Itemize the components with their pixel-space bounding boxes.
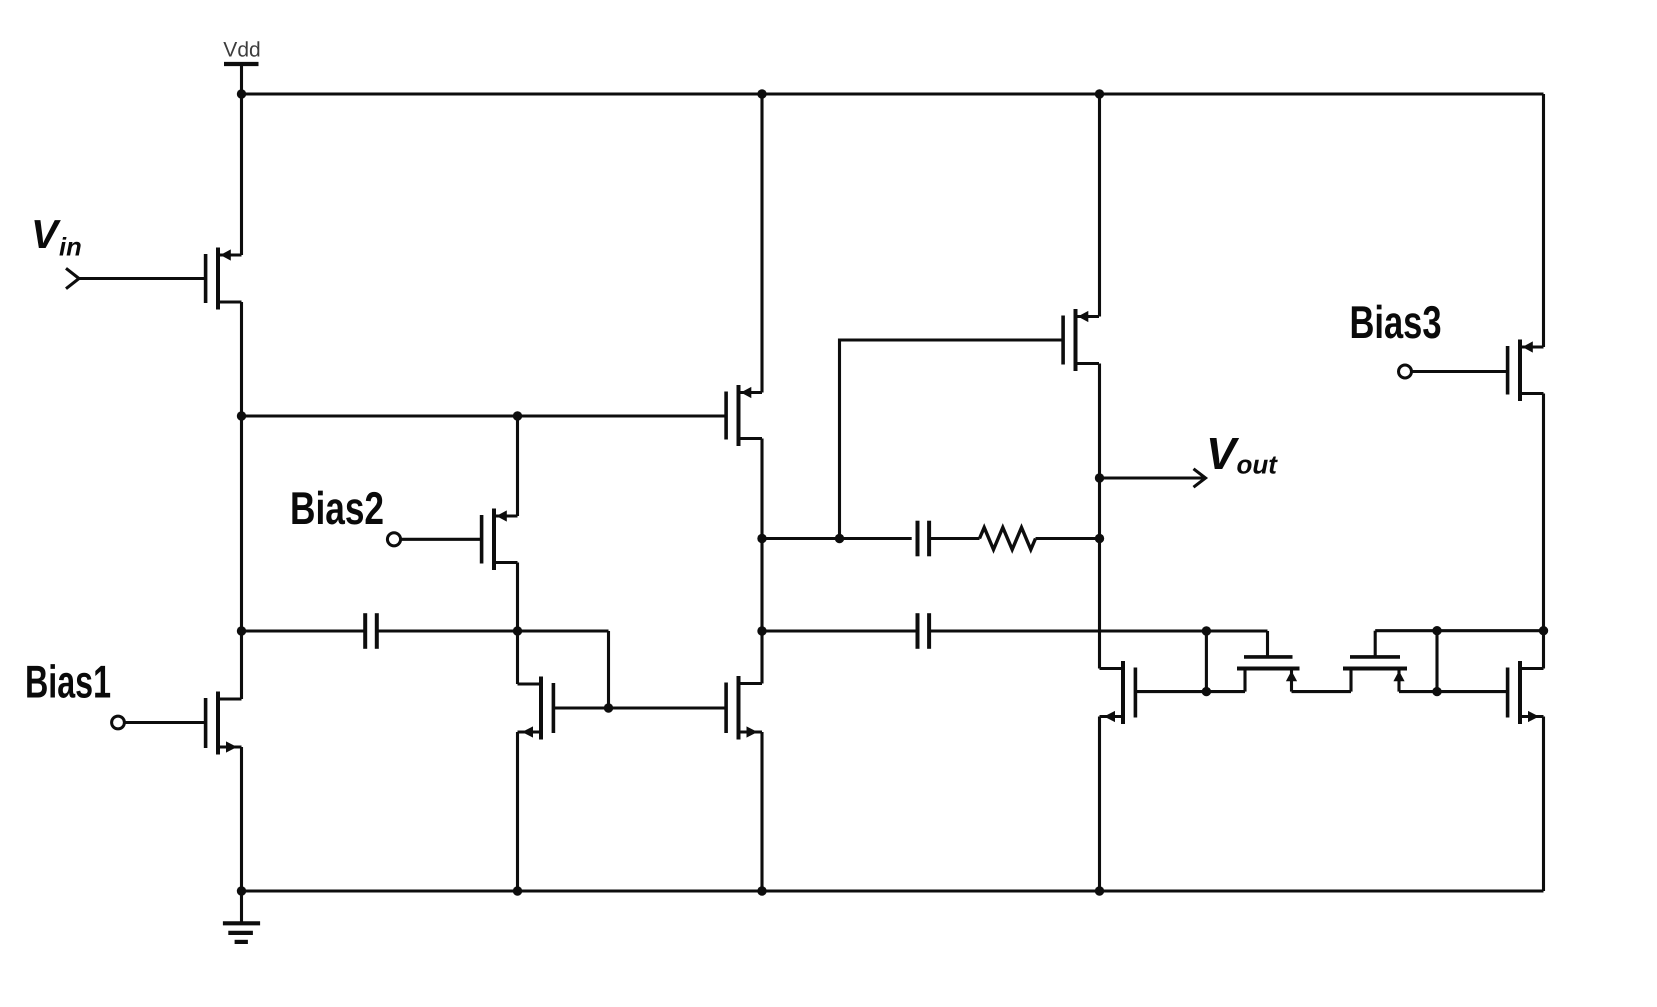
capacitor C1 (365, 613, 377, 649)
junction T2 source row (1432, 687, 1441, 696)
wire Vin to M1 gate (79, 277, 206, 280)
wire top Vdd rail (242, 92, 1544, 95)
transistor M7 (PMOS output stage) (1063, 309, 1099, 371)
port Bias2 terminal (387, 533, 400, 546)
node Vout label (1206, 428, 1278, 480)
wire M3 source up to node-A wire (516, 416, 519, 516)
svg-text:Vdd: Vdd (223, 38, 260, 61)
transistor M6 (NMOS mirror output) (726, 676, 762, 740)
wire node C to C2 (762, 629, 918, 632)
wire C2 to T1 gate corner (crosses output rail) (929, 629, 1267, 632)
wire T1 source to T2 drain (1292, 690, 1352, 693)
wire riser T2 source row (1435, 631, 1438, 692)
transistor M10 (NMOS right mirror) (1508, 661, 1544, 724)
wire node C to feedback tap (762, 537, 912, 540)
svg-text:in: in (59, 234, 82, 262)
port Vin (input chevron) (66, 268, 79, 288)
svg-text:out: out (1236, 450, 1278, 480)
svg-text:V: V (31, 211, 61, 257)
wire rail M5 source to Vdd (760, 94, 763, 393)
wire Bias3 to M9 gate (1412, 370, 1508, 373)
port Bias3 terminal (1399, 365, 1412, 378)
wire gate row M4 to M6 (552, 706, 726, 709)
junction M3 source tap (513, 411, 522, 420)
junction top rail / M7 branch (1095, 89, 1104, 98)
wire M6 source to ground rail (760, 732, 763, 891)
svg-text:V: V (1206, 428, 1240, 479)
transistor M4 (NMOS diode-connected mirror) (518, 677, 554, 740)
wire drop to M4/M6 gate row (607, 631, 610, 708)
wire resistor R1 to Vout rail (1036, 537, 1100, 540)
wire rail M9 source to Vdd (1542, 94, 1545, 347)
resistor R1 (zigzag) (980, 528, 1036, 550)
transistor M2 (NMOS, Bias1 current source) (206, 692, 242, 755)
transistor M9 (PMOS, Bias3 device) (1508, 340, 1544, 402)
junction M8 gate row (1202, 687, 1211, 696)
node Vin label (31, 211, 82, 262)
wire Vout stub (1100, 476, 1206, 479)
junction ground rail / M4 (513, 886, 522, 895)
wire rail M7 source to Vdd (1098, 94, 1101, 317)
junction ground rail / M2 (237, 886, 246, 895)
transistor Q2 (lateral NMOS, gate up) (1343, 657, 1407, 692)
power symbol Vdd (supply bar) (224, 62, 259, 66)
capacitor C2 (918, 613, 930, 649)
wire node A to M5 gate (242, 414, 727, 417)
wire T2 gate corner to right rail (1375, 629, 1543, 632)
wire bottom ground rail (242, 889, 1544, 892)
wire rail M1 source to Vdd (240, 94, 243, 255)
junction M4/M6 gate wire (604, 703, 613, 712)
svg-text:Bias2: Bias2 (290, 482, 384, 534)
wire node A to C1 (242, 629, 366, 632)
wire M10 source to ground rail (1542, 717, 1545, 892)
junction node C / C2 tap (757, 626, 766, 635)
transistor M8 (NMOS, output mirror) (1100, 661, 1136, 724)
junction node A / C1 tap (237, 626, 246, 635)
wire T2 gate stub (1374, 631, 1377, 657)
wire T1 gate stub (1266, 631, 1269, 657)
transistor M3 (PMOS, Bias2 cascode) (482, 509, 518, 571)
junction T2-source riser top (1432, 626, 1441, 635)
junction feedback tap (835, 534, 844, 543)
wire Vdd stub (240, 64, 243, 94)
wire M4 drain up to node B (516, 631, 519, 684)
wire M3 drain down to node B (516, 563, 519, 632)
wire M8 gate to T1 left lead (1135, 690, 1245, 693)
transistor Q1 (lateral NMOS, gate up) (1237, 657, 1300, 692)
wire Bias1 to M2 gate (124, 721, 205, 724)
transistor M5 (PMOS second stage) (726, 385, 762, 446)
junction right rail / C2 net (1539, 626, 1548, 635)
junction node B (513, 626, 522, 635)
wire Bias2 to M3 gate (401, 538, 482, 541)
port Bias1 terminal (112, 716, 125, 729)
wire M4 source to ground rail (516, 732, 519, 891)
junction Vout tap (1095, 473, 1104, 482)
svg-text:Bias1: Bias1 (25, 656, 111, 708)
wire C3 to resistor R1 (929, 537, 979, 540)
junction ground rail / M8 (1095, 886, 1104, 895)
svg-text:Bias3: Bias3 (1349, 296, 1441, 348)
wire rail M7 drain down to M8 drain (1098, 364, 1101, 669)
junction top rail / M5 branch (757, 89, 766, 98)
wire rail M1 drain down to M2 drain (240, 302, 243, 699)
wire T2 source to M10 gate (1399, 690, 1507, 693)
wire rail M5 drain down to M6 drain (760, 439, 763, 684)
wire C1 to node B (377, 629, 518, 632)
capacitor C3 (compensation) (918, 521, 930, 557)
junction node A / M5-gate tap (237, 411, 246, 420)
wire rail M9 drain to M10 drain (1542, 394, 1545, 669)
junction at Vdd rail left (237, 89, 246, 98)
ground symbol (223, 891, 260, 942)
junction RC row at Vout rail (1095, 534, 1104, 543)
transistor M1 (PMOS, Vin input device) (206, 248, 242, 310)
junction ground rail / M6 (757, 886, 766, 895)
wire feedback up to M7 gate (840, 340, 1064, 539)
junction node C / RC tap (757, 534, 766, 543)
wire M2 source to ground rail (240, 747, 243, 891)
wire drop to M8 gate row (1205, 631, 1208, 692)
port Vout arrowhead (1194, 469, 1206, 487)
wire node B to diode-gate drop (518, 629, 609, 632)
wire M8 source to ground rail (1098, 717, 1101, 892)
junction C2 row / M8 gate drop (1202, 626, 1211, 635)
